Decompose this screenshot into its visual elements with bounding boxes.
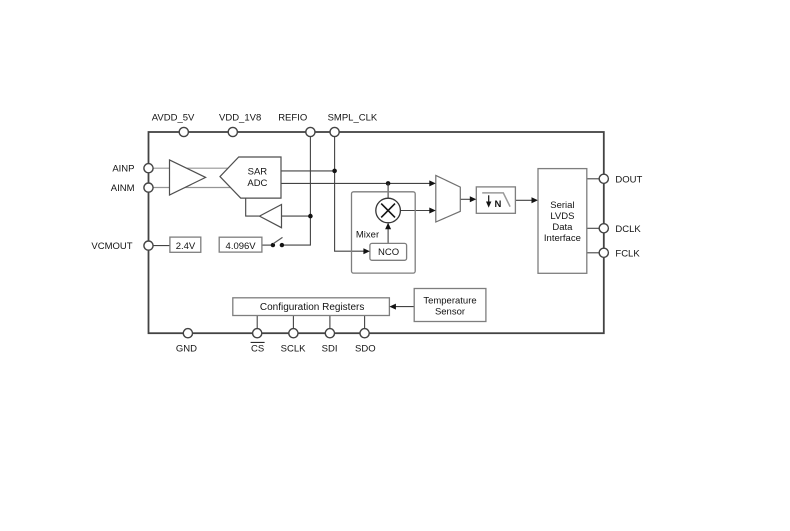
svg-text:VDD_1V8: VDD_1V8 (219, 113, 261, 124)
svg-text:GND: GND (176, 344, 197, 355)
arrowhead NCO to multiplier (385, 223, 391, 229)
pin AINM (111, 183, 153, 194)
svg-text:ADC: ADC (247, 178, 267, 189)
svg-text:Configuration Registers: Configuration Registers (260, 302, 365, 313)
DAC feedback triangle (260, 205, 282, 228)
junction REFIO / DAC (308, 214, 313, 219)
svg-text:AVDD_5V: AVDD_5V (152, 113, 195, 124)
mux selector (436, 175, 461, 222)
temperature sensor box (414, 289, 486, 322)
junction SAR output / mixer tap (386, 181, 391, 186)
wire 4.096V reference to switch (262, 244, 273, 246)
wire serial interface to DOUT (587, 178, 599, 180)
svg-text:DOUT: DOUT (615, 174, 642, 185)
svg-text:REFIO: REFIO (278, 113, 307, 124)
wire mixer tap down to multiplier (387, 183, 389, 199)
arrowhead mux output into decimation filter (470, 196, 477, 202)
pin AINP (112, 164, 153, 175)
svg-text:Mixer: Mixer (356, 230, 379, 241)
pin SDO (355, 329, 376, 355)
svg-text:NCO: NCO (378, 247, 399, 258)
arrowhead decimation filter into serial interface (532, 197, 539, 203)
pin FCLK (599, 248, 640, 259)
wire SAR ADC output to mux (281, 182, 431, 184)
svg-text:SCLK: SCLK (281, 344, 306, 355)
decimation filter block N (476, 187, 515, 213)
svg-text:Sensor: Sensor (435, 306, 465, 317)
wire config registers to SCLK pin (292, 316, 294, 330)
wire SMPL_CLK clock into SAR ADC (281, 170, 335, 172)
wire AINP to amplifier and amplifier output to SAR ADC (151, 167, 232, 169)
wire temperature sensor to config registers (395, 306, 415, 308)
wire multiplier output to mux (400, 210, 430, 212)
svg-text:SDI: SDI (322, 344, 338, 355)
arrowhead mixer output into mux (429, 208, 436, 214)
pin SCLK (281, 329, 306, 355)
arrowhead SAR output into mux (429, 180, 436, 186)
pin SMPL_CLK (328, 113, 378, 137)
NCO box (370, 243, 407, 260)
wire AINM to amplifier and amplifier output to SAR ADC (151, 187, 232, 189)
4.096V reference box (219, 237, 262, 252)
arrowhead SMPL_CLK into NCO (363, 248, 370, 254)
svg-text:AINM: AINM (111, 183, 135, 194)
mixer enclosure box (352, 192, 416, 273)
junction SMPL_CLK / SAR clock (332, 169, 337, 174)
wire DAC output to REFIO net (282, 215, 311, 217)
wire decimation filter to serial interface (515, 199, 532, 201)
arrowhead temperature sensor into config registers (389, 304, 396, 310)
svg-text:AINP: AINP (112, 164, 134, 175)
serial LVDS data interface box (538, 169, 587, 274)
svg-text:VCMOUT: VCMOUT (91, 241, 132, 252)
svg-text:Serial: Serial (550, 200, 574, 211)
svg-text:Temperature: Temperature (423, 295, 476, 306)
pin VDD_1V8 (219, 113, 261, 137)
svg-text:CS: CS (251, 344, 264, 355)
switch S1 on REFIO net (271, 237, 284, 247)
svg-text:SDO: SDO (355, 344, 376, 355)
pin DOUT (599, 174, 642, 185)
wire SMPL_CLK vertical stem (335, 132, 365, 251)
svg-text:N: N (495, 199, 502, 210)
svg-text:FCLK: FCLK (615, 248, 640, 259)
wire serial interface to FCLK (587, 252, 599, 254)
wire config registers to SDO pin (364, 316, 366, 330)
svg-text:SAR: SAR (248, 166, 268, 177)
svg-text:Data: Data (552, 222, 573, 233)
wire serial interface to DCLK (587, 227, 599, 229)
2.4V reference box (170, 237, 201, 252)
wire config registers to SDI pin (329, 316, 331, 330)
chip outer boundary box (149, 132, 604, 333)
configuration registers box (233, 298, 390, 316)
wire REFIO vertical stem (284, 132, 311, 245)
pin CS (active low, overline) (251, 329, 265, 355)
pin VCMOUT (91, 241, 153, 252)
svg-text:4.096V: 4.096V (226, 241, 257, 252)
pin REFIO (278, 113, 315, 137)
pin DCLK (599, 224, 641, 235)
wire mux output to decimation filter (460, 198, 471, 200)
pin SDI (322, 329, 338, 355)
multiplier X1 (376, 198, 401, 223)
svg-text:LVDS: LVDS (550, 211, 574, 222)
pin AVDD_5V (152, 113, 195, 137)
pin GND (176, 329, 197, 355)
wire NCO up-arrow to multiplier (387, 228, 389, 244)
wire config registers to CS pin (256, 316, 258, 330)
wire VCMOUT to 2.4V reference (151, 245, 170, 247)
SAR ADC block (220, 157, 281, 198)
svg-text:SMPL_CLK: SMPL_CLK (328, 113, 378, 124)
amplifier A1 input buffer triangle (170, 160, 206, 195)
svg-text:2.4V: 2.4V (176, 241, 196, 252)
svg-text:DCLK: DCLK (615, 224, 641, 235)
svg-text:Interface: Interface (544, 233, 581, 244)
wire SAR ADC bottom to DAC input (246, 198, 260, 216)
